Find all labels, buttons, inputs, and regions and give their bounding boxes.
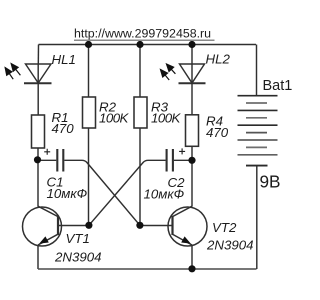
- svg-text:HL2: HL2: [206, 51, 231, 66]
- svg-text:http://www.299792458.ru: http://www.299792458.ru: [74, 27, 211, 41]
- svg-text:Bat1: Bat1: [263, 78, 293, 94]
- svg-text:100K: 100K: [99, 110, 130, 125]
- svg-text:VT2: VT2: [212, 220, 237, 235]
- svg-text:470: 470: [206, 125, 229, 140]
- svg-text:10мкФ: 10мкФ: [144, 186, 185, 201]
- svg-text:100K: 100K: [151, 110, 182, 125]
- svg-text:470: 470: [52, 121, 75, 136]
- svg-text:HL1: HL1: [52, 52, 76, 67]
- svg-text:2N3904: 2N3904: [206, 238, 254, 253]
- svg-text:9В: 9В: [260, 172, 281, 192]
- svg-text:VT1: VT1: [66, 231, 90, 246]
- svg-text:10мкФ: 10мкФ: [47, 186, 88, 201]
- svg-text:2N3904: 2N3904: [54, 250, 102, 265]
